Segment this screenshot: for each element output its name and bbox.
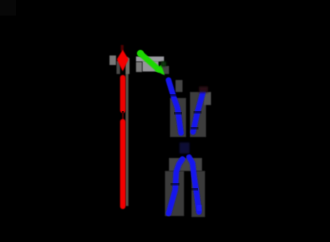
gray artifact block left below green start [136,62,142,72]
dark purple smudge above line B [199,87,208,93]
blue line A end hook [197,205,202,211]
gray band below crossing [169,158,202,171]
dash notches on blue lines [169,94,202,191]
gray band right of blue line A top [176,80,183,92]
green arrow start blob [137,50,144,57]
faint dark green hook [161,62,166,67]
gray companion line right of red shaft [126,57,129,206]
faint panel top-left corner [0,0,16,16]
gray artifact band behind green arrow (upper) [136,57,164,62]
gray artifact strip left of red shaft [117,61,121,74]
gray artifact right of green tip [162,66,170,74]
red arrow stub above head [121,45,124,51]
gray band bottom of line A [192,171,206,217]
red shaft segment 2 [120,119,125,209]
gray artifact band behind green arrow (lower) [143,61,159,72]
red shaft segment 1 [120,75,125,113]
blue line B (top-right to bottom-left, dashed) [169,92,203,214]
gray band bottom of line B [165,171,184,216]
gray band around blue line B mid [190,92,206,137]
green arrow shaft [140,53,158,69]
gray block right of red head [126,58,130,74]
green arrowhead [155,65,165,76]
red arrowhead (stealth, pointing up) [117,50,129,71]
dim navy smudge at crossing [180,143,190,154]
faint red in gap [122,111,124,120]
gray block right of blue line B top [204,92,211,105]
gray artifact block left of red arrowhead [110,56,117,66]
gray band around blue line A mid [170,98,186,137]
blue line A (top-left to bottom-right, dashed) [169,80,200,212]
